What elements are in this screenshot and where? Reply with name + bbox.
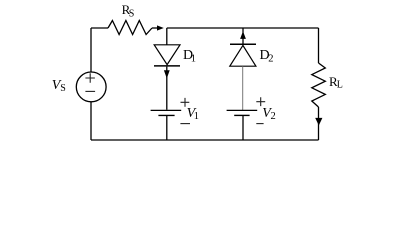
wire right branch upper: [318, 28, 320, 63]
wire D1 to V1 with current arrow: [166, 67, 168, 110]
wire V2 to bottom rail: [242, 115, 244, 140]
resistor RL: [312, 63, 326, 107]
diode D1: [154, 45, 180, 65]
svg-text:S: S: [129, 8, 135, 19]
wire RS to node with current arrow: [152, 27, 159, 29]
wire D2 branch upper with current arrow: [242, 28, 244, 44]
battery V1: [151, 109, 182, 111]
wire left branch upper: [90, 28, 92, 72]
battery V2: [227, 109, 258, 111]
diode D2: [230, 43, 256, 45]
resistor RS: [108, 21, 152, 35]
wire top rail: [167, 27, 319, 29]
svg-text:1: 1: [194, 111, 199, 122]
wire RL to bottom rail with current arrow: [318, 107, 320, 140]
wire D2 to V2: [242, 66, 244, 110]
source VS: [76, 72, 106, 102]
svg-text:2: 2: [268, 53, 273, 64]
wire bottom rail: [91, 139, 319, 141]
wire V1 to bottom rail: [166, 115, 168, 140]
svg-text:2: 2: [271, 111, 276, 122]
svg-text:L: L: [337, 79, 343, 90]
wire D1 branch upper: [166, 28, 168, 45]
svg-text:1: 1: [191, 53, 196, 64]
svg-text:S: S: [60, 83, 66, 94]
wire left branch lower: [90, 102, 92, 140]
wire top-left segment: [91, 27, 108, 29]
